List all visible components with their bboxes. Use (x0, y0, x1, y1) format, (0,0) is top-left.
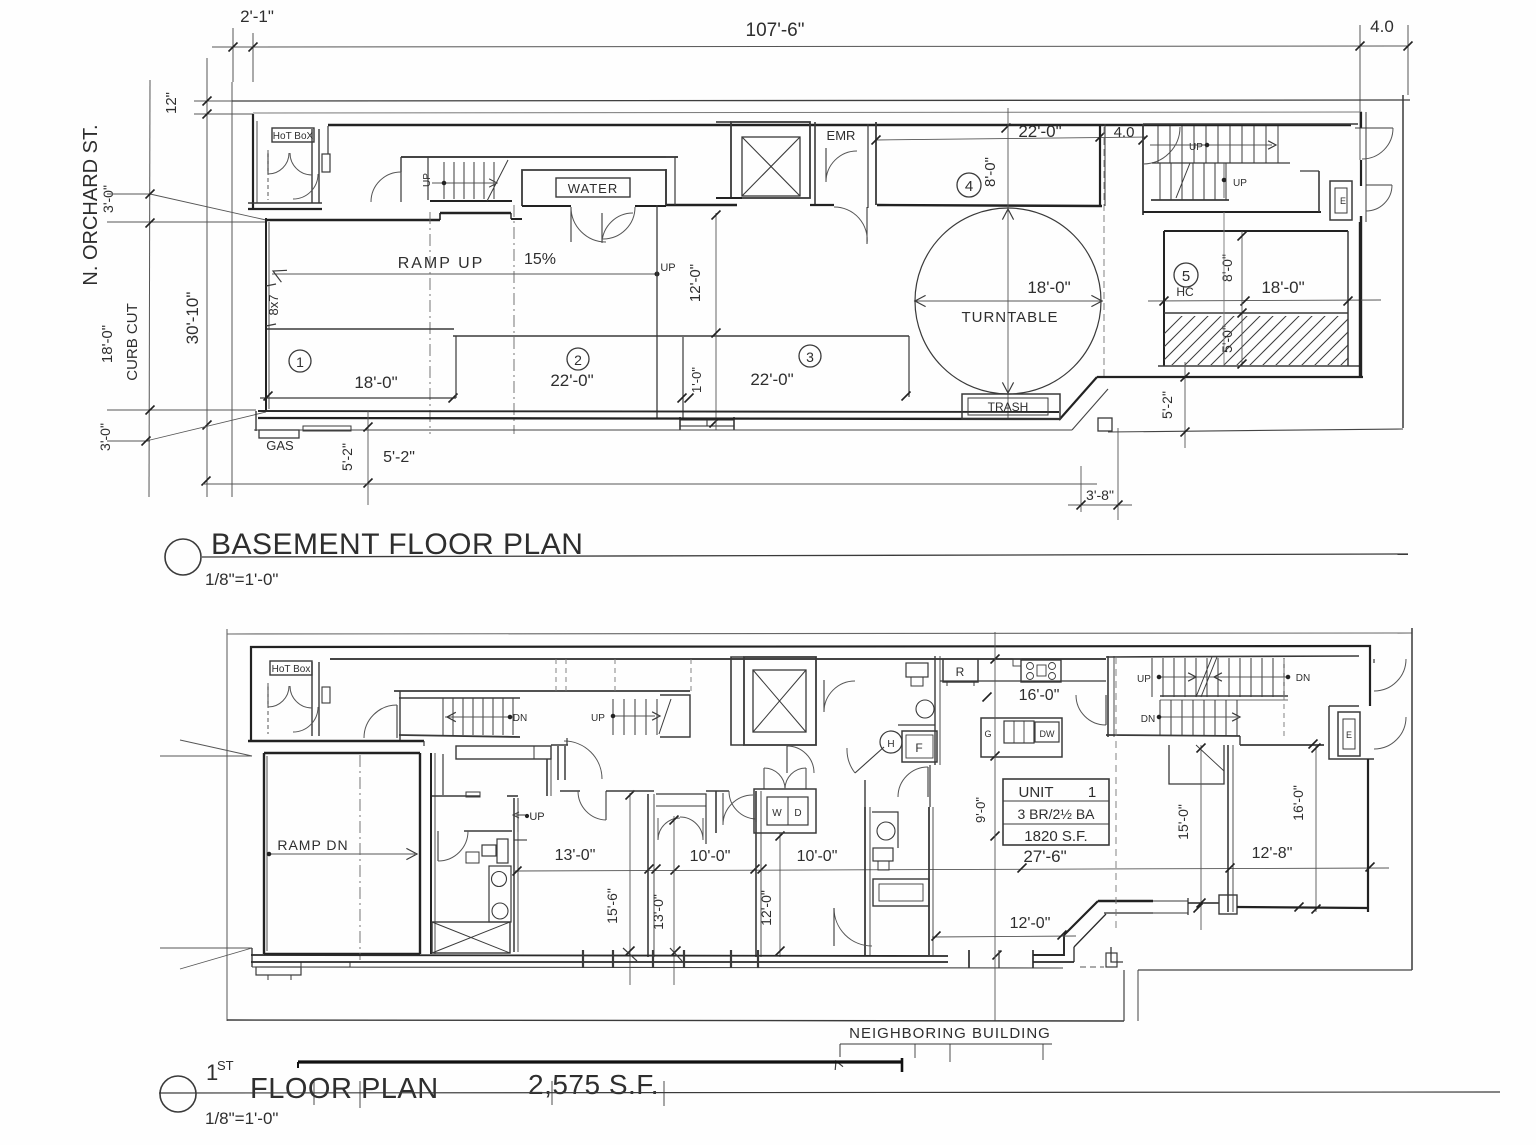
leader line horizontal lower (160, 947, 252, 949)
svg-text:UP: UP (1137, 674, 1151, 685)
dim line 3-8 (1068, 504, 1132, 506)
window tick a (623, 948, 637, 961)
descender tick a (914, 1044, 916, 1058)
svg-text:UP: UP (422, 173, 433, 187)
tick y871 x675 (671, 866, 680, 875)
svg-text:12'-0": 12'-0" (687, 264, 704, 302)
ramp wall jog2 (510, 213, 512, 219)
areaway door upper leaf (1355, 127, 1393, 129)
powder2 wc tank (906, 663, 928, 677)
stair run arrow (489, 179, 497, 187)
garage east wall (419, 753, 421, 954)
door arc hotbox right (290, 153, 312, 175)
tick stall left (264, 392, 273, 401)
basement west wall inner thin (256, 121, 258, 203)
tick kitchen dim (983, 693, 992, 702)
stair2 centerline down (1223, 212, 1225, 366)
counter divider (533, 746, 535, 759)
tick space5 v1 (1238, 232, 1247, 241)
tick below wall (710, 419, 719, 428)
ramp wall jog (439, 213, 441, 220)
tick space4 dim right (1096, 133, 1105, 142)
island sink dividers (1013, 721, 1015, 743)
svg-text:22'-0": 22'-0" (750, 370, 793, 389)
svg-text:15'-6": 15'-6" (604, 888, 620, 924)
ramp up dot (655, 272, 659, 276)
ramp dn centerline (268, 853, 415, 855)
basement E elevator box outer (1330, 181, 1352, 220)
svg-text:16'-0": 16'-0" (1290, 785, 1306, 821)
hotbox2 label box (270, 661, 312, 675)
tick 3-0 upper b (146, 219, 155, 228)
garage west wall (263, 753, 265, 954)
neighboring underline (840, 1043, 1052, 1045)
ramp arrow left (273, 270, 287, 282)
svg-text:1: 1 (296, 354, 304, 370)
unit table row line 2 (1003, 823, 1109, 825)
stair1f dot (508, 715, 512, 719)
party wall heavy line (298, 1060, 902, 1063)
svg-text:FLOOR PLAN: FLOOR PLAN (250, 1073, 439, 1105)
stair south wall (430, 200, 512, 202)
svg-text:RAMP UP: RAMP UP (398, 255, 485, 272)
space5 vertical dim line (1241, 231, 1243, 366)
dashed outer under bay (1080, 966, 1104, 968)
hotbox2 room east wall (311, 662, 313, 736)
door arc into stair hall (396, 705, 398, 738)
double tick x647 (645, 865, 654, 874)
door at stair landing leaf (400, 172, 402, 202)
space3 stall east line (908, 336, 910, 397)
room wall x1228 (1227, 745, 1229, 912)
hall wall x558 (557, 746, 559, 780)
dashed jamb line hotbox (267, 150, 269, 200)
svg-text:12'-8": 12'-8" (1252, 845, 1293, 862)
dimension line 30-10 vertical (206, 58, 208, 497)
site boundary west line (231, 82, 233, 497)
bedroomA west wall (513, 798, 515, 952)
svg-text:RAMP DN: RAMP DN (277, 837, 348, 853)
space4 east wall (1099, 124, 1101, 206)
svg-text:UP: UP (1189, 142, 1203, 153)
water room walls (522, 170, 666, 206)
small rect on wall y796 (466, 792, 480, 797)
garage north wall (264, 752, 420, 754)
wall y791 left segment (560, 790, 580, 792)
dashed line in stair 2f (1283, 659, 1285, 736)
vert dim line x1316 (1315, 745, 1317, 912)
window rect mid mullion (706, 420, 708, 426)
stairhall2 north wall (1106, 656, 1359, 657)
svg-text:2,575 S.F.: 2,575 S.F. (528, 1069, 659, 1100)
svg-text:30'-10": 30'-10" (183, 292, 202, 345)
powder2 wall x940 (939, 656, 941, 765)
tick x683 bottom (678, 394, 687, 403)
tick 4.0 right (1404, 42, 1413, 51)
first floor east wall upper (1369, 645, 1371, 706)
turntable arrow bottom (1002, 382, 1013, 393)
south outer site edge line (252, 967, 1063, 968)
bay window jamb (1187, 898, 1189, 915)
elevator north wall stub (716, 121, 731, 123)
svg-text:2'-1": 2'-1" (240, 7, 274, 26)
first floor title underline (159, 1092, 1500, 1093)
tick x674 top (670, 816, 679, 825)
double tick x754 (751, 865, 760, 874)
stair1f run line (445, 716, 510, 718)
bay diagonal wall (1064, 901, 1098, 935)
svg-text:TURNTABLE: TURNTABLE (961, 309, 1058, 326)
elevator shaft outer box (731, 122, 810, 198)
stair2 south wall (1151, 199, 1229, 201)
tick 9-0 mid (991, 752, 1000, 761)
tick y871 x515 (513, 867, 522, 876)
stair run dot (442, 181, 446, 185)
svg-text:4: 4 (965, 178, 973, 195)
tick 5-2 top (364, 423, 373, 432)
cooktop center sq (1037, 665, 1046, 676)
svg-text:8'-0": 8'-0" (982, 157, 999, 187)
diagonal outer at trash corner (1072, 389, 1108, 430)
wall y791 mid segment (606, 790, 654, 792)
garage door jamb tick top (266, 284, 276, 286)
bay window corner box (1219, 895, 1237, 914)
hall door arc (722, 793, 724, 825)
tick 12in bottom (203, 110, 212, 119)
south wall 1f outer line (251, 961, 948, 963)
space4 east wall inner (1104, 124, 1106, 206)
svg-text:E: E (1340, 196, 1346, 206)
neighboring arrow (835, 1061, 843, 1070)
small box left of cooktop (1013, 659, 1021, 666)
south wall tick e (993, 951, 1002, 960)
powder room walls (864, 807, 866, 955)
svg-text:UNIT: UNIT (1019, 784, 1054, 801)
stair2 enclosure west wall (1142, 124, 1144, 215)
extension line right of 2'-1" (252, 33, 254, 82)
dashed floorline right stair (690, 659, 692, 692)
tick bay wall (1197, 899, 1206, 908)
svg-text:18'-0": 18'-0" (1261, 278, 1304, 297)
turntable horizontal diameter (914, 300, 1103, 302)
tick x716 bottom (712, 329, 721, 338)
hot box room east wall (311, 129, 313, 203)
unit table row line 1 (1003, 800, 1109, 802)
tick bottom site (202, 477, 211, 486)
svg-text:CURB CUT: CURB CUT (124, 303, 141, 381)
meter bump ticks (267, 975, 269, 980)
F box (902, 731, 937, 762)
vert dim line x674 (673, 816, 675, 985)
step lines small stair (513, 798, 515, 841)
stair2f lower treads (1159, 700, 1161, 736)
closet between bedrooms box (656, 794, 706, 844)
elevator1f X b (753, 670, 806, 732)
door arc hotbox lower (293, 174, 318, 199)
hall wall x717 (715, 791, 717, 833)
wall from water room to elevator (666, 204, 737, 206)
F box inner (906, 735, 933, 758)
svg-text:22'-0": 22'-0" (550, 371, 593, 390)
tick 3-8 left (1077, 501, 1086, 510)
bedroomB east wall a (755, 791, 757, 957)
shaft X diag2 (432, 922, 510, 953)
island sink box (1004, 721, 1034, 743)
tick x1201 bottom (1194, 904, 1203, 913)
stair1f treads down (442, 698, 444, 735)
powder2 sink circle (916, 700, 934, 718)
stair2 upper treads (1157, 126, 1159, 163)
svg-text:10'-0": 10'-0" (690, 848, 731, 865)
grid dashdot line A (429, 212, 431, 434)
counter box mudroom (456, 746, 551, 759)
window 1f b jambs (652, 950, 654, 968)
circle number 4 (957, 173, 981, 197)
window tick b (670, 948, 682, 961)
trash enclosure inner (968, 398, 1048, 415)
wall under powder (864, 780, 866, 807)
south wall 1f segment e (1033, 954, 1064, 956)
wall segment y745 (423, 741, 425, 746)
wd inner box (767, 797, 808, 825)
tick 9-0 b (991, 832, 1000, 841)
bath1f sink circle (492, 872, 507, 887)
svg-text:TRASH: TRASH (988, 400, 1029, 414)
tick 5-2 bottom (364, 479, 373, 488)
tick x780 a (776, 832, 785, 841)
bedroomA west wall b (517, 798, 519, 952)
stair2f diagonal break double (1196, 657, 1212, 697)
tick bay dim left (932, 932, 941, 941)
closet wall east b (550, 759, 552, 796)
cooktop box (1021, 660, 1061, 682)
dashed floorline above stairs b (565, 659, 567, 692)
small post at bay (1106, 953, 1117, 967)
window rect end bars (679, 417, 681, 430)
space5 west wall (1163, 231, 1165, 366)
elevator shaft inner box (742, 137, 800, 196)
hotbox2 door arc left (268, 686, 289, 707)
hall wall right of stairs x567 (566, 738, 568, 745)
garage door jamb tick bottom (266, 324, 276, 326)
shaft box with X (432, 922, 510, 953)
water double door leaf left (570, 207, 572, 242)
bath1f fixture box tall (489, 866, 511, 922)
neighboring leader corner (839, 1044, 841, 1057)
tick south east wall (1295, 903, 1304, 912)
basement east wall seg1 (1360, 112, 1362, 128)
stair2f mid rail b (1160, 699, 1288, 701)
bay corner vertical (1063, 935, 1065, 956)
space4 divider wall west (867, 124, 869, 208)
bath1f inner small box (466, 852, 479, 863)
cooktop burners (1027, 663, 1034, 670)
svg-text:R: R (956, 665, 965, 679)
stair2 north wall (1143, 123, 1358, 125)
dashed unit boundary x1116 (1115, 657, 1117, 932)
basement south wall outer (258, 418, 1059, 419)
svg-text:9'-0": 9'-0" (973, 797, 988, 823)
wall corner water-east (665, 169, 667, 205)
site west line first floor (226, 629, 228, 1021)
tick x630 top (626, 791, 635, 800)
first floor north wall (250, 646, 1371, 647)
stair1f arrow left (447, 712, 456, 721)
svg-text:16'-0": 16'-0" (1019, 687, 1060, 704)
svg-text:2: 2 (574, 352, 582, 368)
party wall end cap left (297, 1062, 299, 1068)
neighboring building step vertical (1123, 970, 1125, 1021)
bath1f north wall (464, 830, 512, 832)
svg-text:4.0: 4.0 (1114, 124, 1135, 141)
door arc to bath hall (810, 772, 836, 774)
svg-text:DN: DN (513, 713, 527, 724)
svg-text:12'-0": 12'-0" (758, 890, 774, 926)
svg-text:ST: ST (217, 1058, 234, 1073)
ramp north wall mid segment (440, 212, 511, 214)
stall divider x456 (455, 336, 457, 398)
hot box room south wall (248, 202, 322, 204)
counter line kitchen (940, 680, 1106, 682)
dim line 22'-0" over space4 (876, 137, 1146, 140)
closet diagonal shelf (1196, 745, 1224, 771)
stair2 wall jog east (1318, 171, 1320, 212)
svg-text:3'-0": 3'-0" (100, 185, 116, 213)
ramp north wall west segment (266, 219, 440, 221)
R refrigerator box (943, 659, 978, 682)
svg-text:5'-0": 5'-0" (1219, 325, 1235, 353)
stair2 lower run (1223, 163, 1225, 198)
svg-text:GAS: GAS (266, 438, 294, 453)
leader diagonal to lower corner (146, 412, 266, 441)
bay window sills (1153, 900, 1188, 902)
leader to first floor corner lower (180, 948, 252, 969)
elevator1f outer box (744, 657, 816, 745)
svg-text:3 BR/2½ BA: 3 BR/2½ BA (1017, 806, 1095, 822)
stair2 run dot lower (1222, 178, 1226, 182)
wall left of elevator1f (731, 657, 744, 745)
R legs (946, 682, 948, 686)
trash enclosure outer (962, 394, 1060, 419)
meter bump box 1f (256, 967, 301, 975)
tick 2'-1" left (229, 43, 238, 52)
hot box room east wall b (318, 129, 320, 203)
svg-text:1'-0": 1'-0" (689, 367, 704, 393)
first floor title circle (160, 1076, 196, 1112)
powder2 door leaf (927, 767, 929, 797)
svg-text:1820 S.F.: 1820 S.F. (1024, 828, 1087, 845)
powder room wall b (869, 807, 871, 955)
wall y791 right segment (706, 790, 729, 792)
svg-text:HoT BoX: HoT BoX (273, 131, 314, 142)
bath2 door arc (834, 945, 872, 947)
tick x630 bottom (626, 947, 635, 956)
tick 12-8 right (1366, 863, 1375, 872)
powder wc tank (873, 848, 893, 861)
wall EMR south segment (810, 204, 834, 206)
tick 4.0 left (1356, 42, 1365, 51)
hotbox2 room east wall b (318, 662, 320, 736)
angled door powder (855, 747, 884, 773)
basement south wall east inner (1158, 365, 1360, 367)
turntable arrow right (1091, 295, 1102, 306)
stair2f lower arrow (1232, 713, 1240, 721)
closet inner line (656, 805, 706, 807)
stair2f arrows mid (1188, 673, 1196, 681)
tick 12-8 left (1226, 864, 1235, 873)
basement south outer line west (254, 429, 1072, 431)
wall x930 to bath (929, 765, 931, 807)
basement north wall outer thin line (253, 112, 1362, 113)
extension line x368 down (367, 411, 369, 505)
dim line 5-2 right (1184, 362, 1186, 448)
svg-text:1/8"=1'-0": 1/8"=1'-0" (205, 1109, 278, 1128)
stair landing south wall (1143, 211, 1321, 213)
space5 north wall (1164, 230, 1348, 232)
stair1f south wall (399, 735, 520, 737)
tick 5-2r top (1181, 373, 1190, 382)
door below EMR leaf (866, 207, 868, 244)
dim line 107'-6" across top (212, 46, 1408, 47)
door arc bedroomB (755, 791, 757, 822)
svg-text:N. ORCHARD ST.: N. ORCHARD ST. (80, 124, 102, 285)
basement east wall inner line (1365, 112, 1367, 222)
corner jog at hotbox (327, 126, 329, 154)
extension line 4.0 left (1359, 25, 1361, 160)
tick x780 b (776, 947, 785, 956)
svg-text:3: 3 (806, 349, 814, 365)
island DW box (1035, 722, 1059, 742)
svg-text:WATER: WATER (568, 181, 619, 196)
dashed floorline above stairs a (555, 659, 557, 692)
ramp north wall east stub (511, 218, 522, 220)
site east line first floor (1411, 628, 1413, 970)
leader to first floor corner upper (180, 740, 252, 756)
wd closet outer (754, 789, 816, 833)
svg-text:18'-0": 18'-0" (1027, 278, 1070, 297)
tick space5 v2 (1238, 309, 1247, 318)
dim line vertical x716 (715, 213, 717, 430)
dim line 12-0 bay (932, 936, 1076, 937)
stair1f up dot (611, 714, 615, 718)
site north line first floor (227, 633, 1412, 634)
powder2 wall x935 (934, 656, 936, 765)
stair2f south wall east (1240, 744, 1324, 746)
extension line left of 2'-1" (232, 28, 234, 82)
svg-text:18'-0": 18'-0" (99, 325, 116, 363)
tick 2'-1" right (249, 43, 258, 52)
parking stall line y398 (260, 397, 456, 399)
bath1f door leaf (437, 831, 439, 861)
space1 north line (267, 328, 454, 330)
basement E elevator box inner (1335, 188, 1347, 213)
tick x1316 top (1312, 744, 1321, 753)
diagonal wall at trash corner (1059, 377, 1097, 420)
tick space5 left (1160, 297, 1169, 306)
EMR door leaf (825, 148, 827, 182)
E lobby 1f walls (1329, 706, 1374, 759)
tick stair2f wall (1309, 740, 1318, 749)
site boundary east line (1402, 95, 1404, 428)
space3 circle (799, 345, 821, 367)
basement east wall lower (1359, 222, 1361, 377)
svg-text:DW: DW (1040, 729, 1055, 739)
stair2f upper run (1159, 676, 1288, 678)
water double door arc right (603, 207, 635, 239)
space5 east wall (1347, 231, 1349, 366)
door arc stair landing (371, 172, 401, 202)
stair1f diagonal break (659, 699, 671, 734)
